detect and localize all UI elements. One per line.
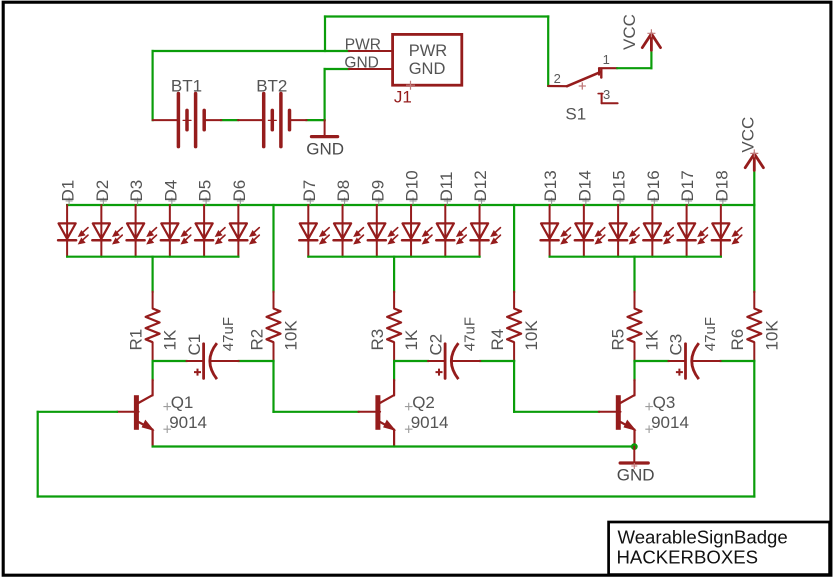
svg-text:HACKERBOXES: HACKERBOXES (617, 547, 759, 568)
LED D4 (161, 180, 191, 257)
transistor Q3 (599, 380, 689, 447)
svg-text:R1: R1 (126, 329, 145, 351)
svg-text:S1: S1 (565, 104, 586, 123)
svg-text:47uF: 47uF (220, 317, 237, 351)
wire R1 bottom / C1 / Q1 collector node (153, 360, 187, 362)
wire Q1 base feedback loop (38, 411, 117, 413)
svg-text:D8: D8 (334, 180, 353, 202)
connector J1 (344, 34, 461, 106)
svg-text:Q1: Q1 (171, 393, 194, 412)
svg-text:10K: 10K (762, 320, 781, 351)
svg-text:47uF: 47uF (462, 317, 479, 351)
svg-text:VCC: VCC (739, 117, 758, 153)
LED D17 (678, 170, 708, 256)
LED D12 (471, 170, 501, 256)
svg-text:D16: D16 (644, 170, 663, 201)
LED D1 (58, 180, 88, 257)
svg-text:J1: J1 (394, 88, 412, 107)
wire C1 to R2 bottom node (239, 360, 274, 362)
svg-text:D1: D1 (59, 180, 78, 202)
resistor R4 (488, 292, 541, 361)
svg-text:D7: D7 (300, 180, 319, 202)
LED D11 (436, 172, 466, 257)
wire R2 to Q2 base (274, 411, 359, 413)
LED D15 (609, 170, 639, 256)
svg-text:R6: R6 (728, 329, 747, 351)
wire switch pin1 to VCC (617, 67, 651, 69)
LED D3 (127, 180, 157, 257)
LED D6 (229, 180, 259, 257)
LED D13 (541, 170, 571, 256)
svg-text:1K: 1K (402, 329, 421, 350)
svg-text:R5: R5 (608, 329, 627, 351)
wire LED cathode bus bank 2 (308, 256, 479, 258)
wire emitter bus (153, 445, 635, 447)
LED D14 (575, 170, 605, 256)
svg-text:D12: D12 (471, 170, 490, 201)
svg-text:D3: D3 (127, 180, 146, 202)
svg-text:BT1: BT1 (171, 76, 202, 95)
svg-text:D13: D13 (541, 170, 560, 201)
svg-text:D18: D18 (712, 170, 731, 201)
svg-text:C3: C3 (667, 334, 686, 356)
wire PWR net: J1 PWR pin to batteries and up to switch (325, 15, 548, 17)
svg-text:10K: 10K (522, 320, 541, 351)
wire LED anode bus (VCC rail) (67, 204, 754, 206)
svg-text:D9: D9 (368, 180, 387, 202)
svg-text:D17: D17 (678, 170, 697, 201)
wire VCC bus drop to R4 (513, 205, 515, 292)
battery BT2 (238, 76, 307, 146)
wire R5 bottom / C3 / Q3 collector node (635, 360, 669, 362)
LED D9 (368, 180, 398, 257)
LED D18 (712, 170, 742, 256)
wire LED cathode bus bank 3 (550, 256, 721, 258)
svg-text:D4: D4 (161, 180, 180, 202)
svg-text:9014: 9014 (651, 413, 689, 432)
ground symbol (emitter GND) (617, 447, 655, 485)
svg-text:Q3: Q3 (653, 393, 676, 412)
LED D5 (195, 180, 225, 257)
resistor R3 (368, 292, 421, 361)
svg-text:Q2: Q2 (412, 393, 435, 412)
svg-text:D5: D5 (196, 180, 215, 202)
transistor Q2 (358, 380, 448, 447)
svg-text:47uF: 47uF (702, 317, 719, 351)
svg-text:BT2: BT2 (256, 76, 287, 95)
resistor R2 (247, 292, 300, 361)
wire C3 to R6 bottom node (721, 360, 755, 362)
svg-text:D10: D10 (403, 170, 422, 201)
resistor R6 (728, 292, 781, 361)
svg-text:D14: D14 (575, 170, 594, 201)
svg-text:D15: D15 (610, 170, 629, 201)
transistor Q1 (117, 380, 207, 447)
capacitor C2 (426, 317, 480, 379)
svg-text:GND: GND (344, 54, 378, 71)
supply symbol VCC (LED bus) (739, 117, 764, 171)
svg-text:GND: GND (306, 139, 344, 158)
ground symbol (battery GND) (306, 120, 344, 158)
LED D16 (643, 170, 673, 256)
battery BT1 (153, 76, 222, 146)
svg-text:9014: 9014 (169, 413, 207, 432)
supply symbol VCC (switch) (620, 14, 660, 50)
capacitor C1 (185, 317, 239, 379)
wire LED cathode bus bank 1 (67, 256, 238, 258)
svg-text:10K: 10K (282, 320, 301, 351)
switch S1 (548, 52, 617, 123)
svg-text:1: 1 (603, 52, 610, 67)
LED D8 (334, 180, 364, 257)
svg-text:2: 2 (554, 71, 561, 86)
svg-text:GND: GND (617, 466, 655, 485)
svg-text:PWR: PWR (345, 37, 381, 54)
LED D10 (402, 170, 432, 256)
svg-text:1K: 1K (161, 329, 180, 350)
wire GND net: J1 GND pin to battery minus and GND symbol (325, 68, 349, 70)
svg-text:D2: D2 (93, 180, 112, 202)
wire VCC bus drop to R2 (272, 205, 274, 292)
svg-text:VCC: VCC (620, 14, 639, 50)
svg-text:PWR: PWR (409, 42, 448, 60)
wire R4 to Q3 base (514, 411, 599, 413)
svg-text:R4: R4 (488, 329, 507, 351)
wire VCC2 to LED bus (753, 171, 755, 205)
svg-text:D6: D6 (230, 180, 249, 202)
wire VCC bus drop to R6 (753, 205, 755, 292)
LED D2 (92, 180, 122, 257)
title block (609, 522, 830, 575)
resistor R5 (608, 292, 661, 361)
svg-text:GND: GND (409, 60, 446, 78)
wire C2 to R4 bottom node (480, 360, 514, 362)
svg-text:R2: R2 (247, 329, 266, 351)
svg-text:C1: C1 (185, 334, 204, 356)
svg-text:1K: 1K (643, 329, 662, 350)
LED D7 (299, 180, 329, 257)
wire between BT1 and BT2 (221, 119, 238, 121)
svg-text:WearableSignBadge: WearableSignBadge (618, 526, 788, 547)
svg-text:C2: C2 (426, 334, 445, 356)
junction dot at Q3 emitter/GND (631, 443, 638, 450)
svg-text:3: 3 (603, 87, 610, 102)
svg-text:D11: D11 (437, 172, 456, 202)
resistor R1 (126, 292, 179, 361)
svg-text:9014: 9014 (411, 413, 449, 432)
wire R3 bottom / C2 / Q2 collector node (394, 360, 428, 362)
capacitor C3 (667, 317, 721, 379)
svg-text:R3: R3 (368, 329, 387, 351)
